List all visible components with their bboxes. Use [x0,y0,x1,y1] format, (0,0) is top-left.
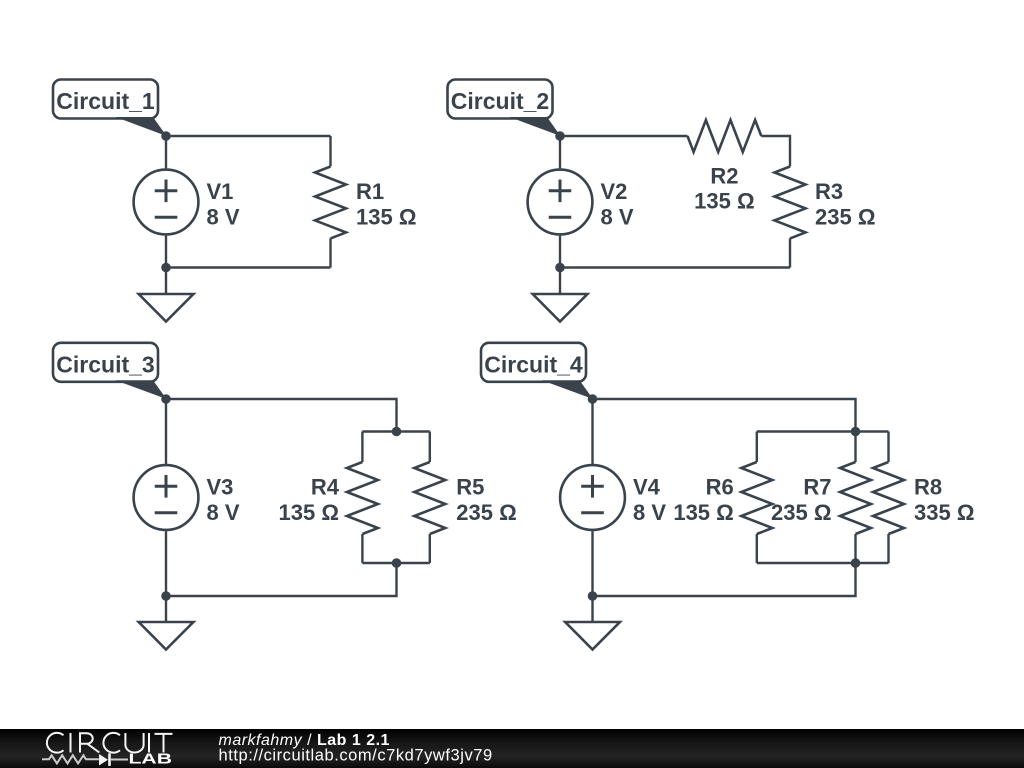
node H (bottom node c4) [588,591,598,601]
svg-text:Circuit_1: Circuit_1 [56,88,155,114]
wire V1 top stub [165,136,167,168]
node A (top node c1) [161,131,171,141]
CircuitLab logo CIRCUIT wordmark [47,733,173,753]
svg-text:335 Ω: 335 Ω [914,500,974,525]
svg-text:V2: V2 [601,179,628,204]
wire V2 top stub [559,136,561,168]
svg-text:R3: R3 [815,179,843,204]
svg-text:8 V: 8 V [207,205,240,230]
svg-text:8 V: 8 V [207,500,240,525]
wire bottom rail c3 [166,563,397,596]
voltage source V2 [528,170,593,235]
label callout box Circuit_4 [481,343,586,382]
svg-text:Circuit_3: Circuit_3 [56,351,154,377]
callout pointer [116,117,167,136]
svg-text:235 Ω: 235 Ω [815,205,875,230]
node B (bottom node c1) [161,263,171,273]
wire V3 bottom stub [165,531,167,596]
wire R2 to corner [761,136,790,167]
wire V4 bottom stub [591,531,593,596]
ground c4 [565,622,620,650]
ground c3 [139,622,194,650]
svg-text:R2: R2 [710,164,738,189]
voltage source V3 [134,465,199,530]
svg-text:8 V: 8 V [601,205,634,230]
wire V3 top stub [165,399,167,464]
resistor R1 [315,136,346,268]
wire top rail c4 [593,399,856,432]
node E (top node c3) [161,394,171,404]
ground c1 [139,294,194,322]
resistor R8 [873,432,904,564]
callout pointer [542,380,593,399]
node G (top node c4) [588,394,598,404]
resistor R2 (horizontal) [688,120,762,152]
label callout box Circuit_3 [53,343,158,382]
voltage source V4 [560,465,625,530]
junction node top c3 [392,427,402,437]
svg-text:135 Ω: 135 Ω [356,205,416,230]
wire top bracket c4 [757,430,889,432]
svg-text:R5: R5 [456,475,484,500]
wire bottom bracket c3 [362,562,429,564]
node F (bottom node c3) [161,591,171,601]
wire bottom rail c4 [593,563,856,596]
logo resistor zigzag + diode [42,755,128,763]
label callout box Circuit_2 [448,80,553,119]
svg-text:R4: R4 [311,475,340,500]
resistor R7 [840,432,871,564]
wire to ground c3 [165,596,167,622]
junction node bottom c3 [392,558,402,568]
svg-text:R1: R1 [356,179,384,204]
svg-text:LAB: LAB [129,750,173,767]
wire top rail c3 [166,399,397,432]
wire to ground c4 [591,596,593,622]
svg-text:Circuit_2: Circuit_2 [451,88,549,114]
wire top rail c2 [560,135,688,137]
label callout box Circuit_1 [53,80,158,119]
resistor R6 [741,432,772,564]
wire V1 bottom stub [165,236,167,268]
junction node bottom c4 [851,558,861,568]
svg-text:R7: R7 [803,475,831,500]
wire top rail c1 [166,135,331,137]
wire bottom rail c1 [166,266,331,268]
svg-text:Circuit_4: Circuit_4 [484,351,583,377]
ground c2 [533,294,588,322]
svg-text:http://circuitlab.com/c7kd7ywf: http://circuitlab.com/c7kd7ywf3jv79 [219,747,493,765]
node D (bottom node c2) [555,263,565,273]
wire bottom bracket c4 [757,562,889,564]
wire bottom rail c2 [560,266,790,268]
resistor R5 [414,432,445,564]
resistor R3 [775,167,806,268]
wire to ground c2 [559,268,561,295]
svg-text:135 Ω: 135 Ω [673,500,733,525]
wire to ground c1 [165,268,167,295]
node C (top node c2) [555,131,565,141]
svg-text:8 V: 8 V [633,500,666,525]
wire V4 top stub [591,399,593,464]
svg-text:V4: V4 [633,475,661,500]
svg-text:135 Ω: 135 Ω [279,500,339,525]
wire V2 bottom stub [559,236,561,268]
junction node top c4 [851,427,861,437]
callout pointer [116,380,167,399]
svg-text:R6: R6 [706,475,734,500]
svg-text:V1: V1 [207,179,234,204]
voltage source V1 [134,170,199,235]
callout pointer [510,117,561,136]
svg-text:135 Ω: 135 Ω [694,189,754,214]
svg-text:V3: V3 [207,475,234,500]
svg-text:235 Ω: 235 Ω [771,500,831,525]
svg-text:R8: R8 [914,475,942,500]
resistor R4 [347,432,378,564]
svg-text:235 Ω: 235 Ω [456,500,516,525]
wire top bracket c3 [362,430,429,432]
